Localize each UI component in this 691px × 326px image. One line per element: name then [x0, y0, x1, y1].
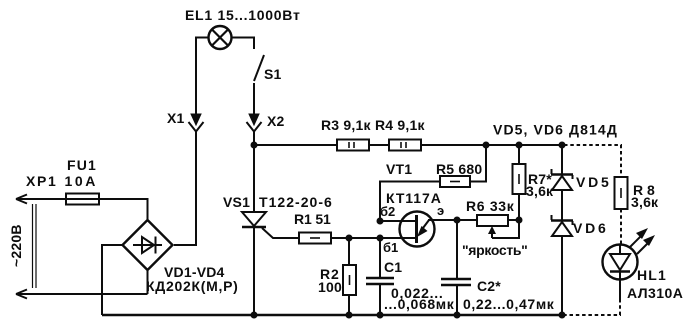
resistor R1: [299, 233, 331, 244]
svg-text:3,6к: 3,6к: [526, 183, 554, 199]
wire VD6 to bottom rail: [561, 236, 563, 315]
lamp EL1: [209, 26, 232, 49]
label C2 value: [463, 296, 555, 312]
svg-text:100: 100: [318, 279, 342, 295]
transistor VT1 (unijunction): [380, 212, 435, 247]
switch S1: [254, 55, 264, 81]
wire R6 right: [508, 219, 519, 221]
fuse FU1: [64, 194, 99, 205]
svg-text:б1: б1: [383, 240, 398, 255]
label XP1: [26, 173, 56, 189]
label KT117A: [386, 190, 441, 206]
dashed wire top to R8: [564, 145, 621, 177]
plug XP1 lower pin: [16, 290, 148, 299]
capacitor C2: [441, 279, 471, 285]
svg-text:C2*: C2*: [477, 278, 501, 294]
wire bridge left corner to mains: [102, 245, 123, 315]
resistor R7: [513, 164, 526, 194]
wire HL1 cathode lead: [619, 280, 621, 300]
svg-text:б2: б2: [380, 204, 395, 219]
svg-text:~220В: ~220В: [8, 224, 24, 267]
svg-text:R3 9,1к: R3 9,1к: [321, 117, 371, 133]
svg-text:АЛ310А: АЛ310А: [627, 285, 683, 301]
plug cord lines: [33, 204, 37, 288]
wire node D to VD5: [561, 145, 563, 174]
svg-text:...0,068мк: ...0,068мк: [384, 296, 455, 312]
label X2: [267, 113, 285, 129]
wire node A to thyristor anode: [253, 145, 255, 212]
svg-text:VD5, VD6 Д814Д: VD5, VD6 Д814Д: [493, 122, 617, 138]
label VD6: [573, 220, 606, 236]
dashed wire R8 to HL1: [620, 209, 622, 245]
label b1 pin: [383, 240, 398, 255]
wire R3 to R4: [369, 144, 389, 146]
label R1 value: [294, 211, 331, 227]
svg-text:VD6: VD6: [573, 220, 606, 236]
wire R2 top: [348, 238, 350, 265]
resistor R5: [440, 176, 470, 187]
wire C1 bottom: [379, 284, 381, 315]
wire base1 row (thyristor gate to VT1 b1): [262, 228, 299, 238]
label VD5: [576, 174, 609, 190]
svg-text:R6 33к: R6 33к: [466, 198, 515, 214]
svg-text:3,6к: 3,6к: [631, 194, 659, 210]
label S1: [264, 66, 282, 82]
resistor R6 potentiometer: [477, 215, 508, 238]
label C1: [384, 259, 402, 275]
svg-text:0,22...0,47мк: 0,22...0,47мк: [463, 296, 555, 312]
svg-text:КД202К(М,Р): КД202К(М,Р): [146, 278, 238, 294]
label R2 value: [318, 266, 342, 295]
wire node A to R3: [254, 144, 337, 146]
wire R6 wiper to right terminal: [492, 220, 519, 238]
label R8 value: [631, 182, 659, 210]
bottom rail wire: [102, 314, 562, 316]
label C2: [477, 278, 501, 294]
wire R2 bottom: [348, 295, 350, 315]
svg-text:VD5: VD5: [576, 174, 609, 190]
node C1 junction dot: [377, 235, 384, 242]
label 220V: [8, 224, 24, 267]
label R7 value: [526, 171, 554, 199]
label EL1 value: [185, 7, 300, 23]
label R6 value: [466, 198, 515, 214]
label VT1: [386, 161, 412, 177]
wire C2 top: [456, 220, 458, 278]
wire emitter to R6: [428, 219, 477, 221]
wire lamp right to switch: [232, 38, 255, 50]
junction dot C2 at rail: [454, 312, 461, 319]
label HL1 type: [627, 285, 683, 301]
node b2 junction dot: [377, 218, 384, 225]
svg-text:э: э: [437, 203, 444, 218]
LED HL1: [603, 228, 656, 280]
wire VS1 cathode to bottom rail: [253, 227, 255, 315]
node B junction dot (R5 branch): [483, 142, 490, 149]
svg-text:VS1: VS1: [223, 194, 250, 210]
svg-text:Т122-20-6: Т122-20-6: [259, 194, 332, 210]
wire R5 to base2 of VT1: [380, 182, 440, 222]
svg-text:R1 51: R1 51: [294, 211, 331, 227]
label VS1 type: [223, 194, 332, 210]
label FU1 value: [65, 173, 96, 189]
thyristor VS1: [242, 212, 266, 227]
svg-text:10A: 10A: [65, 173, 96, 189]
wire bridge bottom corner: [147, 270, 149, 294]
junction dot VD6 at rail: [559, 312, 566, 319]
label e pin: [437, 203, 444, 218]
junction dot C1 at rail: [377, 312, 384, 319]
svg-text:XP1: XP1: [26, 173, 56, 189]
node F junction dot (R6/R7): [516, 217, 523, 224]
junction dot R2 at rail: [346, 312, 353, 319]
svg-text:"яркость": "яркость": [462, 242, 528, 258]
junction dot VS1 cathode at rail: [251, 312, 258, 319]
label X1: [167, 110, 185, 126]
svg-text:HL1: HL1: [637, 267, 666, 283]
label FU1: [67, 157, 96, 173]
resistor R2: [343, 265, 356, 295]
label C1 value line1: [391, 285, 443, 301]
resistor R4: [389, 140, 421, 151]
wire R7 bottom to node F: [518, 194, 520, 220]
label VD1-VD4: [164, 264, 225, 280]
node C junction dot (R7 branch): [516, 142, 523, 149]
svg-text:X2: X2: [267, 113, 285, 129]
resistor R3: [337, 140, 369, 151]
svg-text:R4 9,1к: R4 9,1к: [375, 117, 425, 133]
capacitor C1: [366, 278, 394, 284]
zener VD5: [551, 169, 573, 190]
label R5 value: [436, 161, 482, 177]
label VD1-VD4 type: [146, 278, 238, 294]
svg-text:EL1 15...1000Вт: EL1 15...1000Вт: [185, 7, 300, 23]
wire X1 down to bridge right corner: [174, 132, 196, 246]
wire node B down to R5: [470, 145, 486, 182]
label R3 value: [321, 117, 371, 133]
node D junction dot (VD5 branch): [559, 142, 566, 149]
svg-text:S1: S1: [264, 66, 282, 82]
node E junction dot (emitter/C2): [454, 217, 461, 224]
label C1 value line2: [384, 296, 455, 312]
connector X2: [247, 114, 262, 132]
connector X1: [189, 114, 204, 132]
wire lamp left to X1: [196, 38, 209, 115]
label VD5 VD6 type: [493, 122, 617, 138]
label HL1: [637, 267, 666, 283]
wire C2 bottom: [456, 285, 458, 315]
svg-text:R5 680: R5 680: [436, 161, 482, 177]
wire node C to R7: [518, 145, 520, 164]
label brightness: [462, 242, 528, 258]
label R4 value: [375, 117, 425, 133]
svg-text:FU1: FU1: [67, 157, 96, 173]
zener VD6: [551, 215, 573, 236]
bridge rectifier VD1-VD4: [123, 220, 173, 270]
node R2 junction dot: [346, 235, 353, 242]
svg-text:X1: X1: [167, 110, 185, 126]
plug XP1 upper pin: [16, 195, 64, 204]
node A junction dot: [251, 142, 258, 149]
wire R4 to zener branch (top supply rail): [421, 144, 562, 146]
wire VD5 to VD6: [561, 190, 563, 220]
wire X2 down to node A: [253, 132, 255, 146]
wire C1 top: [379, 238, 381, 277]
svg-text:VT1: VT1: [386, 161, 412, 177]
wire switch to X2: [253, 83, 255, 114]
resistor R8: [615, 177, 628, 209]
svg-text:C1: C1: [384, 259, 402, 275]
dashed wire HL1 to bottom rail: [562, 299, 620, 315]
label b2 pin: [380, 204, 395, 219]
wire fuse to bridge top: [97, 199, 148, 220]
